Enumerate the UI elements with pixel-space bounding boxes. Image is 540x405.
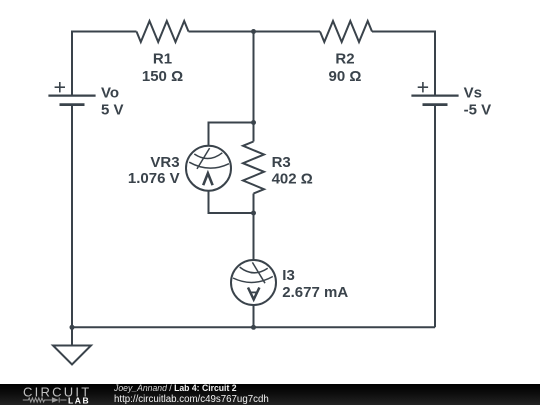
node top tee xyxy=(251,29,256,34)
node ammeter bottom xyxy=(251,325,256,330)
svg-text:R3: R3 xyxy=(272,154,291,171)
battery Vs xyxy=(411,82,458,105)
wire bottom xyxy=(72,326,435,328)
wire top left xyxy=(72,32,137,97)
wire left down xyxy=(71,105,73,328)
svg-text:5 V: 5 V xyxy=(101,101,124,118)
svg-text:R1: R1 xyxy=(153,51,172,68)
footer text xyxy=(114,384,237,394)
svg-text:VR3: VR3 xyxy=(150,154,179,171)
svg-text:2.677 mA: 2.677 mA xyxy=(282,284,348,301)
footer bar xyxy=(0,384,540,405)
wire right down xyxy=(434,105,436,328)
node R3 top xyxy=(251,120,256,125)
svg-text:I3: I3 xyxy=(282,267,295,284)
ammeter I3 xyxy=(231,260,276,305)
node R3 bottom xyxy=(251,211,256,216)
wire middle below R3 xyxy=(253,194,255,261)
svg-text:-5 V: -5 V xyxy=(464,101,492,118)
resistor R2 xyxy=(320,21,372,42)
wire top middle xyxy=(189,31,321,33)
battery Vo xyxy=(48,82,95,105)
svg-text:150 Ω: 150 Ω xyxy=(142,68,183,85)
wire VR3 branch bottom xyxy=(209,191,254,213)
wire middle below ammeter xyxy=(253,305,255,327)
node ground tee xyxy=(70,325,75,330)
resistor R3 xyxy=(243,142,264,194)
ground xyxy=(53,327,91,364)
svg-text:LAB: LAB xyxy=(68,396,90,405)
wire top right xyxy=(372,32,435,97)
wire VR3 branch top xyxy=(209,123,254,146)
resistor R1 xyxy=(137,21,189,42)
wire middle vertical upper xyxy=(253,32,255,142)
svg-text:90 Ω: 90 Ω xyxy=(329,68,362,85)
svg-text:Vo: Vo xyxy=(101,85,119,102)
svg-text:402 Ω: 402 Ω xyxy=(272,171,313,188)
voltmeter VR3 xyxy=(186,146,231,191)
svg-text:1.076 V: 1.076 V xyxy=(128,170,180,187)
svg-text:R2: R2 xyxy=(335,51,354,68)
svg-text:Vs: Vs xyxy=(464,85,482,102)
logo CircuitLab xyxy=(0,384,100,405)
